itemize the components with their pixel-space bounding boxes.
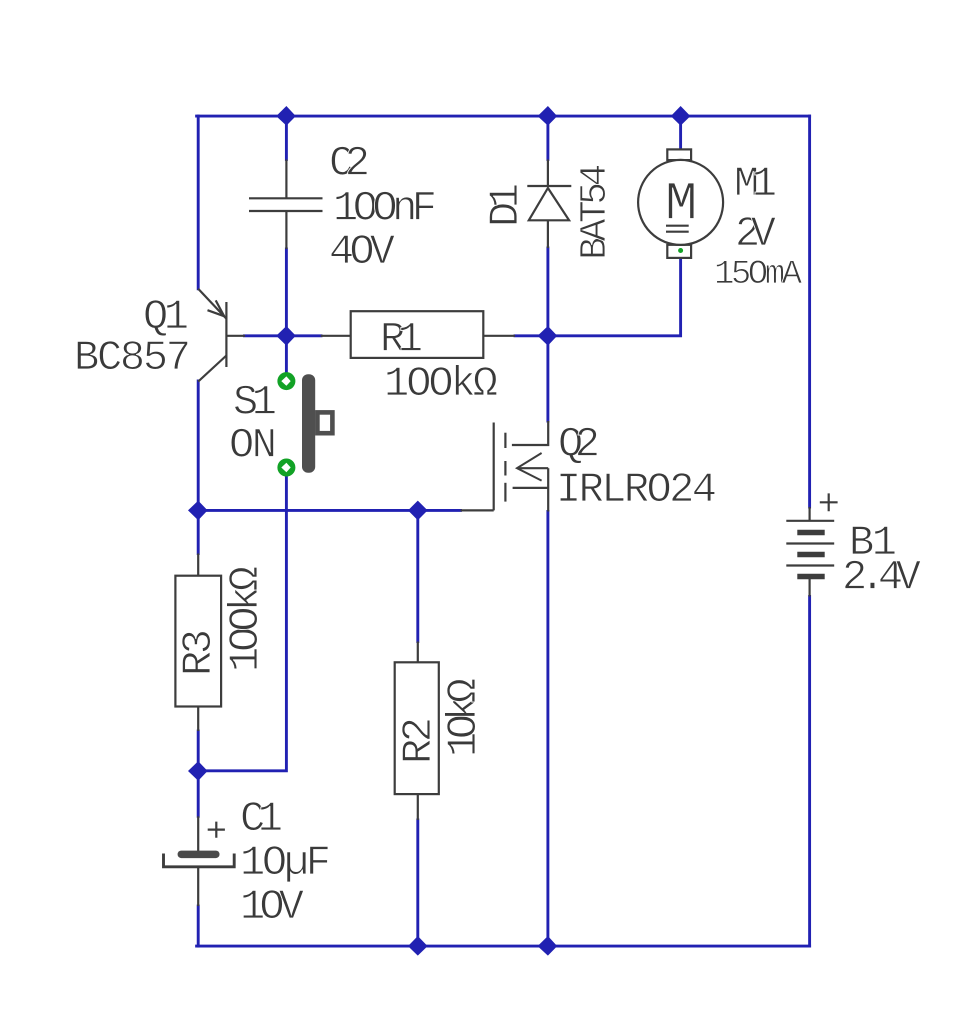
svg-text:1OOkΩ: 1OOkΩ xyxy=(384,360,498,408)
svg-text:1OOkΩ: 1OOkΩ xyxy=(222,566,270,672)
svg-text:IRLRO24: IRLRO24 xyxy=(556,466,717,514)
S1 terminal top xyxy=(277,372,295,390)
svg-text:BAT54: BAT54 xyxy=(574,164,617,260)
wire right rail (battery top) xyxy=(808,116,811,507)
capacitor C2 xyxy=(249,160,323,250)
wire gate node row xyxy=(198,509,460,512)
junction top D1 xyxy=(538,106,558,126)
wire Q2 drain xyxy=(546,336,549,421)
junction left gate row xyxy=(188,501,208,521)
resistor R3 xyxy=(175,554,221,732)
svg-text:R1: R1 xyxy=(380,316,423,364)
junction bottom Q2 xyxy=(538,936,558,956)
wire S1 top xyxy=(285,336,288,374)
junction node R1/D1/M1/Q2 xyxy=(538,326,558,346)
M1 terminal dot xyxy=(678,248,683,253)
svg-text:D1: D1 xyxy=(482,183,530,227)
S1 terminal bottom xyxy=(277,459,295,477)
diode D1 xyxy=(527,160,571,249)
svg-text:ON: ON xyxy=(229,422,277,470)
wire battery bottom xyxy=(808,597,811,947)
svg-text:1OOnF: 1OOnF xyxy=(333,185,437,233)
svg-text:Q2: Q2 xyxy=(558,421,600,469)
svg-text:15OmA: 15OmA xyxy=(714,256,803,294)
resistor R1 xyxy=(321,311,515,358)
mosfet Q2 xyxy=(461,421,549,512)
wire Q2 source to bottom rail xyxy=(546,512,549,947)
wire R2 top xyxy=(416,510,419,641)
svg-text:S1: S1 xyxy=(233,379,277,427)
wire R1 right xyxy=(515,334,548,337)
svg-text:BC857: BC857 xyxy=(74,334,191,382)
svg-text:R2: R2 xyxy=(395,717,443,764)
svg-text:M: M xyxy=(665,175,697,236)
wire R2 bottom xyxy=(416,820,419,946)
wire C1 bottom xyxy=(197,906,200,946)
transistor Q1 xyxy=(198,289,245,382)
svg-text:4OV: 4OV xyxy=(329,228,395,276)
svg-text:1OµF: 1OµF xyxy=(240,839,331,887)
wire left rail upper xyxy=(197,116,200,289)
wire R1 left xyxy=(286,334,321,337)
wire M1 bottom to node xyxy=(548,258,681,336)
svg-text:2V: 2V xyxy=(735,210,776,258)
wire top rail xyxy=(197,115,810,118)
svg-text:C1: C1 xyxy=(240,795,283,843)
battery B1 xyxy=(786,493,837,596)
wire M1 top stub xyxy=(679,116,682,149)
switch S1 xyxy=(302,374,332,472)
wire D1 bottom stub xyxy=(546,248,549,336)
svg-text:1OV: 1OV xyxy=(240,883,304,931)
wire D1 top stub xyxy=(546,116,549,159)
junction top M1 xyxy=(671,106,691,126)
junction top C2 xyxy=(276,106,296,126)
svg-text:R3: R3 xyxy=(175,629,223,676)
wire bottom rail xyxy=(197,945,810,948)
svg-text:C2: C2 xyxy=(329,140,370,188)
motor M1 xyxy=(638,149,723,258)
wire S1 bottom to R3 node xyxy=(198,474,286,771)
svg-text:M1: M1 xyxy=(734,160,777,208)
wire C2 top stub xyxy=(285,116,288,159)
wire R3 bottom to C1 xyxy=(197,731,200,816)
svg-text:2.4V: 2.4V xyxy=(842,554,921,602)
svg-text:1OkΩ: 1OkΩ xyxy=(440,678,488,757)
resistor R2 xyxy=(395,642,439,821)
wire C2 bottom stub xyxy=(285,249,288,336)
wire Q1 base to node xyxy=(245,334,287,337)
capacitor C1 xyxy=(164,816,235,906)
junction bottom R2 xyxy=(408,936,428,956)
junction R3 bottom xyxy=(188,761,208,781)
junction node base/R1 xyxy=(276,326,296,346)
wire left rail mid (collector to R3) xyxy=(197,381,200,554)
junction R2 gate row xyxy=(408,501,428,521)
